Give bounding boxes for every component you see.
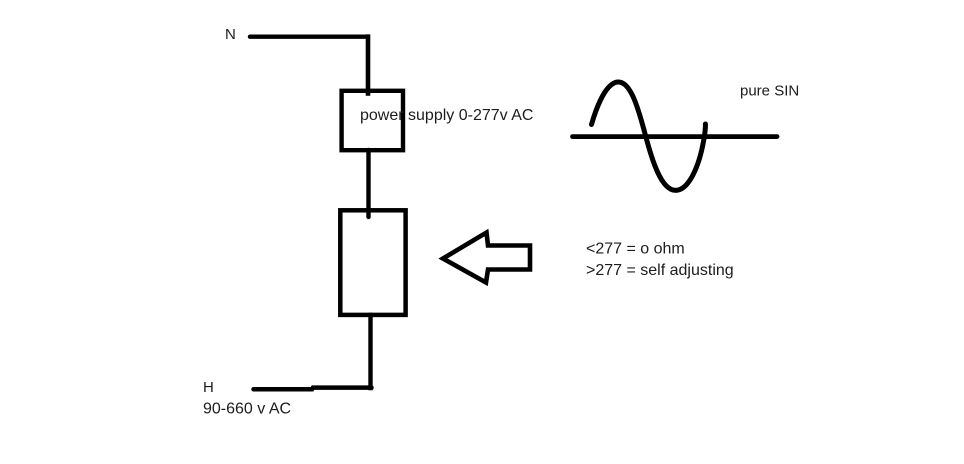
annotation arrow pointing at R1 — [443, 233, 530, 283]
svg-text:pure SIN: pure SIN — [740, 83, 799, 100]
wire H horizontal — [254, 388, 372, 390]
wire N vertical into power supply — [366, 37, 371, 94]
wire PS1 to R1 — [366, 150, 370, 217]
svg-text:power supply 0-277v AC: power supply 0-277v AC — [360, 107, 533, 124]
resistor R1 self-adjusting box — [340, 210, 405, 315]
svg-text:H: H — [203, 379, 214, 396]
sine waveform — [592, 82, 706, 190]
svg-text:>277 = self adjusting: >277 = self adjusting — [586, 262, 734, 279]
power supply PS1 box — [342, 91, 403, 150]
svg-text:<277 = o ohm: <277 = o ohm — [586, 241, 685, 258]
svg-text:N: N — [225, 26, 236, 43]
svg-text:90-660 v AC: 90-660 v AC — [203, 401, 291, 418]
wire R1 to H vertical — [368, 315, 372, 388]
sine wave axis — [573, 134, 778, 139]
wire N horizontal — [250, 35, 368, 39]
